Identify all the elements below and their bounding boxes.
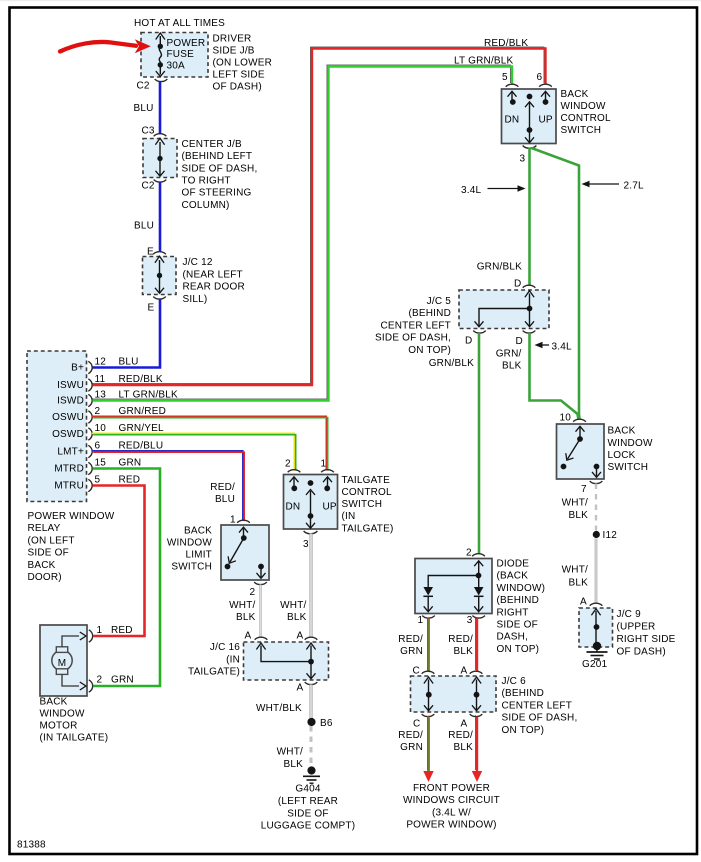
control switch center contact bbox=[527, 94, 533, 100]
svg-text:RIGHT: RIGHT bbox=[497, 607, 529, 618]
power window relay box bbox=[27, 351, 87, 502]
svg-text:WHT/: WHT/ bbox=[229, 600, 255, 611]
relay pin 6 LMT+ connector bbox=[88, 445, 92, 457]
svg-text:C3: C3 bbox=[142, 126, 155, 137]
svg-text:CENTER LEFT: CENTER LEFT bbox=[502, 700, 573, 711]
svg-text:RED/: RED/ bbox=[398, 730, 423, 741]
driver side J/B fuse box bbox=[141, 33, 208, 78]
svg-text:(UPPER: (UPPER bbox=[617, 622, 656, 633]
svg-text:10: 10 bbox=[560, 413, 572, 424]
svg-text:C: C bbox=[413, 666, 420, 677]
svg-text:A: A bbox=[297, 630, 304, 641]
svg-text:CONTROL: CONTROL bbox=[342, 487, 393, 498]
svg-text:RELAY: RELAY bbox=[28, 523, 61, 534]
svg-text:A: A bbox=[297, 683, 304, 694]
svg-text:SILL): SILL) bbox=[183, 294, 208, 305]
svg-text:RED/: RED/ bbox=[448, 634, 473, 645]
svg-text:(BEHIND: (BEHIND bbox=[408, 308, 451, 319]
svg-text:REAR DOOR: REAR DOOR bbox=[183, 282, 245, 293]
J/C 16 box bbox=[244, 642, 329, 680]
svg-text:2: 2 bbox=[466, 548, 472, 559]
motor pin 2 connector bbox=[89, 680, 93, 692]
svg-text:2: 2 bbox=[250, 587, 256, 598]
tailgate switch pin 3 connector bbox=[304, 531, 318, 534]
svg-text:BACK: BACK bbox=[28, 560, 56, 571]
svg-text:SWITCH: SWITCH bbox=[561, 125, 602, 136]
svg-text:SWITCH: SWITCH bbox=[608, 462, 649, 473]
wire WHT/BLK limit switch to J/C 16 bbox=[259, 585, 261, 638]
svg-text:ON TOP): ON TOP) bbox=[502, 725, 545, 736]
wire GRN/RED relay pin 2 to tailgate switch pin 1 bbox=[92, 416, 327, 469]
svg-text:GRN: GRN bbox=[119, 457, 142, 468]
svg-text:B6: B6 bbox=[320, 718, 333, 729]
svg-text:TO RIGHT: TO RIGHT bbox=[182, 175, 231, 186]
control switch DN contact bbox=[508, 91, 517, 96]
svg-text:UP: UP bbox=[539, 115, 553, 126]
svg-text:2: 2 bbox=[95, 406, 101, 417]
J/C 9 inner link bbox=[591, 609, 600, 616]
center J/B inner arrows bbox=[155, 138, 164, 145]
svg-text:2.7L: 2.7L bbox=[624, 180, 645, 191]
svg-text:GRN: GRN bbox=[400, 646, 423, 657]
svg-text:3: 3 bbox=[303, 539, 309, 550]
svg-text:5: 5 bbox=[502, 72, 508, 83]
svg-text:DRIVER: DRIVER bbox=[213, 34, 252, 45]
svg-text:RED/: RED/ bbox=[448, 730, 473, 741]
limit switch contacts bbox=[239, 527, 248, 532]
svg-text:DN: DN bbox=[286, 502, 301, 513]
J/C 12 inner arrows bbox=[155, 256, 164, 263]
J/C 6 box bbox=[411, 676, 497, 712]
svg-text:81388: 81388 bbox=[17, 840, 46, 851]
J/C 5 inner links bbox=[525, 291, 534, 298]
svg-text:6: 6 bbox=[537, 72, 543, 83]
svg-text:1: 1 bbox=[418, 615, 424, 626]
svg-text:6: 6 bbox=[95, 440, 101, 451]
svg-text:BLK: BLK bbox=[287, 612, 307, 623]
wire GRN/BLK J/C5 right D to lock switch pin 10 bbox=[530, 333, 579, 420]
center J/B box bbox=[143, 139, 177, 178]
svg-text:BLU: BLU bbox=[215, 494, 235, 505]
svg-text:UP: UP bbox=[323, 502, 337, 513]
svg-text:RED: RED bbox=[119, 474, 141, 485]
svg-text:A: A bbox=[461, 666, 468, 677]
svg-text:TAILGATE): TAILGATE) bbox=[342, 523, 394, 534]
svg-text:ON TOP): ON TOP) bbox=[408, 345, 451, 356]
svg-text:(3.4L W/: (3.4L W/ bbox=[432, 807, 471, 818]
svg-text:WINDOW: WINDOW bbox=[167, 538, 212, 549]
svg-text:OF DASH): OF DASH) bbox=[213, 82, 262, 93]
svg-text:BLU: BLU bbox=[119, 356, 139, 367]
svg-text:OF STEERING: OF STEERING bbox=[182, 188, 252, 199]
relay pin 13 ISWD connector bbox=[88, 394, 92, 406]
svg-text:GRN: GRN bbox=[400, 742, 423, 753]
wire GRN/BLK control switch pin 3 down to J/C 5 (3.4L branch) bbox=[528, 148, 531, 286]
J/C 5 pin D bottom-right connector bbox=[523, 331, 536, 334]
relay pin 5 MTRU connector bbox=[88, 479, 92, 491]
svg-text:WHT/: WHT/ bbox=[280, 600, 306, 611]
svg-text:MOTOR: MOTOR bbox=[40, 721, 78, 732]
svg-text:WINDOW: WINDOW bbox=[40, 709, 85, 720]
splice I12 bbox=[593, 531, 600, 538]
svg-text:C2: C2 bbox=[137, 81, 150, 92]
svg-text:ON TOP): ON TOP) bbox=[497, 644, 540, 655]
svg-text:BLK: BLK bbox=[453, 646, 473, 657]
svg-text:D: D bbox=[514, 279, 521, 290]
lock switch pin 7 connector bbox=[590, 481, 603, 484]
back window control switch box bbox=[502, 89, 557, 144]
svg-text:SWITCH: SWITCH bbox=[342, 499, 383, 510]
svg-text:BLK: BLK bbox=[568, 578, 588, 589]
relay pin 15 MTRD connector bbox=[88, 462, 92, 474]
svg-text:M: M bbox=[58, 658, 67, 669]
svg-text:1: 1 bbox=[321, 459, 327, 470]
svg-text:15: 15 bbox=[95, 457, 107, 468]
back window limit switch box bbox=[221, 525, 269, 580]
svg-text:BLK: BLK bbox=[283, 759, 303, 770]
svg-text:POWER WINDOW: POWER WINDOW bbox=[28, 511, 115, 522]
svg-text:DN: DN bbox=[505, 115, 520, 126]
svg-text:J/C 9: J/C 9 bbox=[617, 609, 642, 620]
svg-text:WINDOW: WINDOW bbox=[561, 101, 606, 112]
svg-text:TAILGATE): TAILGATE) bbox=[188, 667, 240, 678]
svg-text:RED/: RED/ bbox=[210, 482, 235, 493]
wire BLU center J/B to J/C 12 bbox=[159, 182, 162, 252]
diode inner right branch bbox=[474, 561, 483, 566]
svg-text:SIDE OF DASH,: SIDE OF DASH, bbox=[375, 333, 451, 344]
power fuse 30A symbol bbox=[159, 36, 161, 46]
wire RED/BLK J/C 6 to front power windows bbox=[475, 715, 477, 770]
svg-text:WHT/: WHT/ bbox=[277, 747, 303, 758]
svg-text:(NEAR LEFT: (NEAR LEFT bbox=[183, 269, 243, 280]
svg-text:G404: G404 bbox=[295, 784, 321, 795]
relay pin 2 OSWU connector bbox=[88, 411, 92, 423]
svg-text:A: A bbox=[245, 630, 252, 641]
wire WHT/BLK J/C16 to B6 bbox=[309, 685, 312, 719]
svg-text:2: 2 bbox=[97, 675, 103, 686]
svg-text:SWITCH: SWITCH bbox=[171, 562, 212, 573]
svg-text:3: 3 bbox=[467, 615, 473, 626]
tailgate control switch box bbox=[284, 475, 338, 530]
splice B6 bbox=[307, 718, 315, 726]
svg-text:3.4L: 3.4L bbox=[552, 342, 573, 353]
svg-text:LEFT SIDE: LEFT SIDE bbox=[213, 70, 265, 81]
control switch pin 3 connector bbox=[523, 145, 537, 148]
svg-text:FUSE: FUSE bbox=[167, 49, 195, 60]
svg-text:LIMIT: LIMIT bbox=[185, 550, 212, 561]
tailgate switch DN contact bbox=[290, 477, 299, 482]
wire 2.7L branch diagonal bbox=[532, 148, 580, 420]
wire RED/BLK diode pin 3 to J/C 6 pin A bbox=[475, 617, 477, 670]
svg-text:RED: RED bbox=[111, 625, 133, 636]
motor lead to pin 2 bbox=[62, 675, 79, 687]
dashed wire to G404 bbox=[310, 726, 313, 769]
relay pin 11 ISWU connector bbox=[88, 379, 92, 391]
page top hairline bbox=[0, 0, 701, 1]
svg-text:3: 3 bbox=[520, 154, 526, 165]
svg-text:2: 2 bbox=[285, 459, 291, 470]
svg-text:BACK: BACK bbox=[608, 426, 636, 437]
svg-text:C: C bbox=[413, 719, 420, 730]
wire RED relay pin 5 to motor pin 1 bbox=[93, 486, 145, 637]
svg-text:MTRD: MTRD bbox=[54, 464, 84, 475]
relay pin 12 B+ connector bbox=[88, 361, 92, 373]
svg-text:SIDE J/B: SIDE J/B bbox=[213, 46, 255, 57]
wire RED/GRN diode pin 1 to J/C 6 pin C bbox=[427, 618, 429, 671]
svg-text:(IN: (IN bbox=[342, 511, 356, 522]
wire GRN/YEL relay pin 10 to tailgate switch pin 2 bbox=[92, 433, 295, 469]
diode box bbox=[415, 559, 492, 614]
svg-text:D: D bbox=[465, 336, 472, 347]
svg-text:DIODE: DIODE bbox=[497, 559, 530, 570]
wire RED/BLK relay pin 11 to control switch pin 6 bbox=[91, 47, 544, 384]
limit switch pin 2 connector bbox=[254, 582, 267, 585]
svg-text:WHT/: WHT/ bbox=[562, 565, 588, 576]
svg-text:J/C 16: J/C 16 bbox=[210, 642, 240, 653]
dashed wire WHT/BLK pin 7 to I12 bbox=[595, 484, 597, 531]
svg-text:D: D bbox=[516, 336, 523, 347]
svg-text:A: A bbox=[580, 597, 587, 608]
svg-text:LOCK: LOCK bbox=[608, 450, 636, 461]
svg-text:7: 7 bbox=[581, 484, 587, 495]
wire GRN relay pin 15 to motor pin 2 bbox=[93, 469, 161, 687]
svg-text:C2: C2 bbox=[142, 181, 155, 192]
svg-text:WINDOWS CIRCUIT: WINDOWS CIRCUIT bbox=[403, 795, 500, 806]
svg-text:BLK: BLK bbox=[502, 361, 522, 372]
svg-text:(IN: (IN bbox=[226, 654, 240, 665]
svg-text:CONTROL: CONTROL bbox=[561, 113, 612, 124]
svg-text:TAILGATE: TAILGATE bbox=[342, 475, 391, 486]
svg-text:ISWD: ISWD bbox=[57, 396, 84, 407]
svg-text:RIGHT SIDE: RIGHT SIDE bbox=[617, 634, 676, 645]
svg-text:RED/BLK: RED/BLK bbox=[484, 38, 528, 49]
svg-text:BLU: BLU bbox=[134, 221, 154, 232]
J/C 16 inner links bbox=[256, 643, 265, 650]
svg-text:B+: B+ bbox=[71, 363, 84, 374]
svg-text:G201: G201 bbox=[582, 659, 608, 670]
svg-text:WINDOW): WINDOW) bbox=[497, 583, 546, 594]
ground G404 bbox=[307, 766, 315, 774]
wire BLU fuse to center J/B bbox=[159, 82, 162, 135]
svg-text:LMT+: LMT+ bbox=[57, 447, 84, 458]
svg-text:WINDOW: WINDOW bbox=[608, 438, 653, 449]
J/C 5 pin D bottom-left connector bbox=[473, 331, 486, 334]
back window motor box bbox=[40, 625, 87, 696]
svg-text:BLK: BLK bbox=[453, 742, 473, 753]
svg-text:ISWU: ISWU bbox=[57, 380, 84, 391]
motor lead to pin 1 bbox=[62, 636, 79, 647]
svg-text:10: 10 bbox=[95, 423, 107, 434]
svg-text:SIDE OF DASH,: SIDE OF DASH, bbox=[502, 713, 578, 724]
svg-text:(BEHIND: (BEHIND bbox=[502, 688, 545, 699]
J/C 12 box bbox=[143, 257, 177, 295]
svg-text:RED/BLU: RED/BLU bbox=[119, 440, 164, 451]
svg-text:(IN TAILGATE): (IN TAILGATE) bbox=[40, 733, 109, 744]
svg-text:(ON LEFT: (ON LEFT bbox=[28, 535, 75, 546]
svg-text:CENTER LEFT: CENTER LEFT bbox=[380, 320, 451, 331]
svg-text:SIDE OF DASH,: SIDE OF DASH, bbox=[182, 163, 258, 174]
wire BLU J/C 12 to relay pin 12 bbox=[93, 299, 161, 368]
svg-text:5: 5 bbox=[95, 474, 101, 485]
svg-text:J/C 5: J/C 5 bbox=[427, 296, 452, 307]
svg-text:BACK: BACK bbox=[561, 89, 589, 100]
svg-text:HOT AT ALL TIMES: HOT AT ALL TIMES bbox=[134, 18, 225, 29]
svg-text:BLU: BLU bbox=[134, 103, 154, 114]
control switch UP contact bbox=[541, 91, 550, 96]
svg-text:RED/: RED/ bbox=[398, 634, 423, 645]
svg-text:1: 1 bbox=[230, 515, 236, 526]
tailgate switch UP contact bbox=[323, 477, 332, 482]
svg-text:GRN: GRN bbox=[111, 675, 134, 686]
diode inner left branch bbox=[428, 576, 478, 588]
J/C 6 inner links bbox=[424, 677, 433, 684]
svg-text:I12: I12 bbox=[603, 530, 618, 541]
svg-text:WHT/BLK: WHT/BLK bbox=[256, 703, 302, 714]
svg-text:1: 1 bbox=[97, 625, 103, 636]
connector C2 below fuse box bbox=[155, 79, 168, 82]
svg-text:(BEHIND: (BEHIND bbox=[497, 595, 540, 606]
relay pin 10 OSWD connector bbox=[88, 428, 92, 440]
svg-text:(ON LOWER: (ON LOWER bbox=[213, 58, 273, 69]
svg-text:3.4L: 3.4L bbox=[461, 185, 482, 196]
svg-text:OF DASH): OF DASH) bbox=[617, 647, 666, 658]
tailgate switch center contact bbox=[308, 480, 314, 486]
svg-text:CENTER J/B: CENTER J/B bbox=[182, 139, 242, 150]
svg-text:BACK: BACK bbox=[40, 697, 68, 708]
wire WHT/BLK tailgate switch pin 3 to J/C 16 bbox=[309, 534, 312, 638]
connector E lower bbox=[153, 297, 166, 300]
svg-text:BLK: BLK bbox=[236, 612, 256, 623]
motor pin 1 connector bbox=[89, 630, 93, 642]
svg-text:GRN/BLK: GRN/BLK bbox=[429, 358, 474, 369]
lock switch contacts bbox=[576, 426, 585, 431]
svg-text:GRN/RED: GRN/RED bbox=[119, 406, 167, 417]
connector C2 below center J/B bbox=[154, 180, 167, 183]
svg-text:(LEFT REAR: (LEFT REAR bbox=[278, 796, 338, 807]
svg-text:12: 12 bbox=[95, 356, 107, 367]
red highlight arrow bbox=[60, 42, 136, 52]
ground G201 bbox=[593, 642, 601, 650]
back window lock switch box bbox=[557, 424, 605, 479]
svg-text:COLUMN): COLUMN) bbox=[182, 200, 230, 211]
svg-text:POWER WINDOW): POWER WINDOW) bbox=[406, 820, 496, 831]
svg-text:(BACK: (BACK bbox=[497, 571, 529, 582]
wire RED/BLU relay pin 6 to limit switch pin 1 bbox=[92, 451, 243, 520]
diode pin 3 connector bbox=[472, 616, 485, 619]
svg-text:J/C 6: J/C 6 bbox=[502, 676, 527, 687]
svg-text:GRN/BLK: GRN/BLK bbox=[477, 262, 522, 273]
J/C 5 box bbox=[459, 290, 549, 329]
svg-text:LT GRN/BLK: LT GRN/BLK bbox=[454, 56, 514, 67]
motor symbol bbox=[52, 650, 72, 670]
svg-text:SIDE OF: SIDE OF bbox=[497, 620, 538, 631]
J/C 16 pin A bottom connector bbox=[305, 682, 318, 685]
svg-text:SIDE OF: SIDE OF bbox=[28, 548, 69, 559]
svg-text:GRN/YEL: GRN/YEL bbox=[119, 423, 165, 434]
svg-text:A: A bbox=[461, 719, 468, 730]
J/C 6 pin A bottom connector bbox=[470, 714, 483, 717]
svg-text:SIDE OF: SIDE OF bbox=[287, 808, 328, 819]
diode pin 1 connector bbox=[422, 616, 435, 619]
svg-text:DOOR): DOOR) bbox=[28, 572, 62, 583]
svg-text:J/C 12: J/C 12 bbox=[183, 257, 213, 268]
svg-text:DASH,: DASH, bbox=[497, 632, 529, 643]
svg-text:WHT/: WHT/ bbox=[562, 498, 588, 509]
J/C 9 box bbox=[579, 608, 613, 647]
svg-text:LUGGAGE COMPT): LUGGAGE COMPT) bbox=[261, 821, 355, 832]
svg-text:MTRU: MTRU bbox=[54, 481, 84, 492]
J/C 6 pin C bottom connector bbox=[422, 714, 435, 717]
wire GRN/BLK J/C5 left D to diode pin 2 bbox=[478, 333, 481, 554]
wire RED/GRN J/C 6 to front power windows bbox=[427, 716, 429, 771]
svg-text:OSWD: OSWD bbox=[52, 429, 84, 440]
svg-text:GRN/: GRN/ bbox=[496, 349, 522, 360]
wire WHT/BLK I12 to J/C 9 bbox=[595, 539, 598, 604]
svg-text:BLK: BLK bbox=[568, 510, 588, 521]
svg-text:E: E bbox=[148, 303, 155, 314]
svg-text:FRONT POWER: FRONT POWER bbox=[413, 783, 490, 794]
svg-text:OSWU: OSWU bbox=[52, 412, 84, 423]
svg-text:POWER: POWER bbox=[167, 38, 206, 49]
wire LT GRN/BLK relay pin 13 to control switch pin 5 bbox=[91, 65, 511, 399]
svg-text:BACK: BACK bbox=[184, 526, 212, 537]
svg-text:(BEHIND LEFT: (BEHIND LEFT bbox=[182, 151, 253, 162]
svg-text:30A: 30A bbox=[167, 60, 186, 71]
